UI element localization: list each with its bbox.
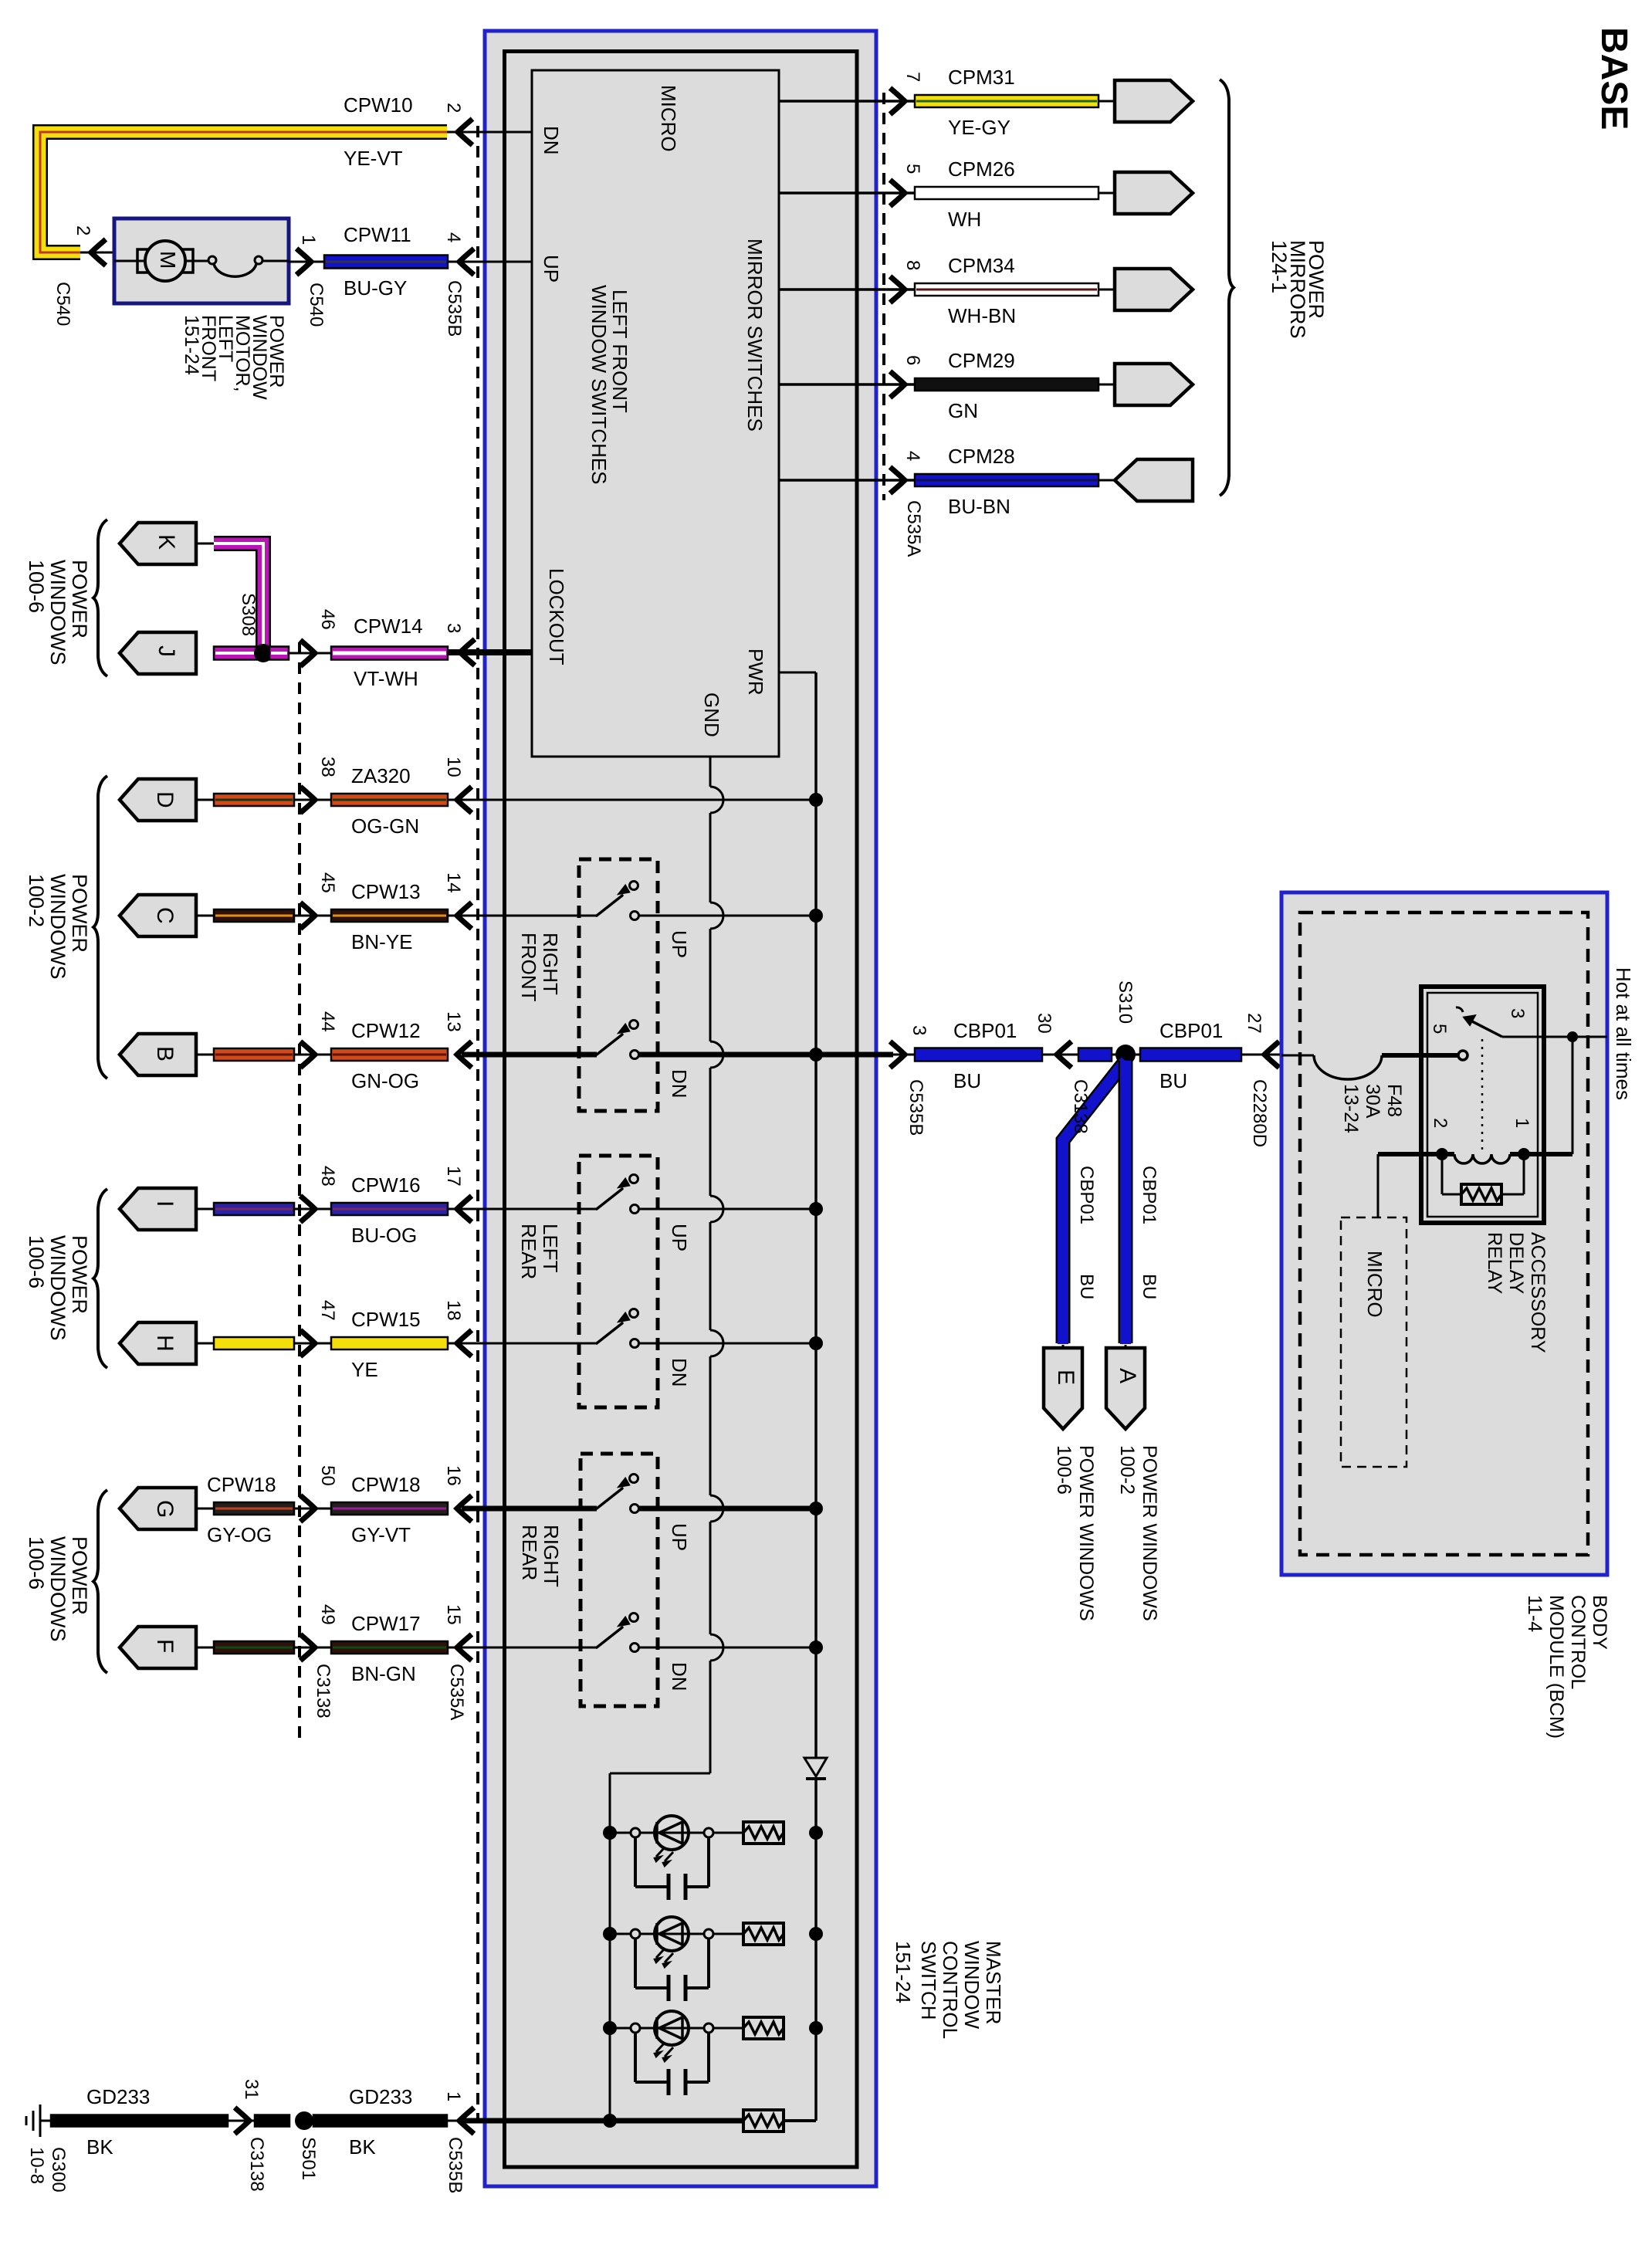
svg-text:BASE: BASE [1593, 27, 1634, 130]
pin 17 of CPW16 [443, 1166, 464, 1187]
svg-text:49: 49 [317, 1604, 338, 1625]
capacitor C3 branch [631, 2023, 713, 2095]
right front switch dashed box [579, 859, 658, 1111]
svg-text:CPW18: CPW18 [351, 1473, 421, 1496]
connector pentagon CPM26 [1115, 172, 1193, 214]
connector boundary C535B dashed line [476, 126, 479, 2123]
svg-text:BK: BK [86, 2135, 113, 2159]
label CPW17 / BN-GN [351, 1612, 421, 1685]
svg-text:DELAY: DELAY [1505, 1232, 1527, 1294]
svg-text:1: 1 [443, 2091, 464, 2101]
wire CPM26 to connector [1099, 192, 1118, 195]
svg-text:38: 38 [317, 757, 338, 777]
svg-text:POWER: POWER [68, 1536, 91, 1615]
connector pentagon CPM28 [1115, 459, 1193, 501]
label POWER WINDOWS 100-6 (I/H) [25, 1235, 91, 1340]
wire left-rear DN switch to PWR bus [639, 1343, 816, 1345]
arrow CPM26 out of C535A [890, 180, 905, 206]
relay contact 5 terminal [1458, 1051, 1468, 1060]
label RIGHT FRONT [517, 933, 562, 1002]
wire C2280D to fuse [1281, 1055, 1314, 1057]
pin 6 of CPM29 [902, 355, 923, 365]
svg-text:4: 4 [902, 451, 923, 461]
label CPW11 / BU-GY [344, 223, 411, 300]
wire right-rear DN switch to PWR bus [639, 1647, 816, 1649]
arrow CPM28 out of C535A [890, 467, 905, 493]
svg-text:CPW13: CPW13 [351, 880, 421, 903]
svg-text:CPW16: CPW16 [351, 1173, 421, 1197]
svg-text:YE: YE [351, 1358, 378, 1381]
svg-text:LEFT FRONT: LEFT FRONT [608, 290, 631, 413]
svg-text:100-6: 100-6 [25, 560, 48, 613]
connector pentagon CPM34 [1115, 269, 1193, 310]
label DN (left rear) [668, 1358, 691, 1387]
svg-text:CBP01: CBP01 [1139, 1166, 1159, 1224]
pin label LOCKOUT [545, 568, 568, 665]
arrow CPM34 out of C535A [890, 276, 905, 303]
arrow CPW18 into C535B [457, 1495, 472, 1522]
motor thermal breaker symbol [185, 256, 289, 276]
svg-text:ZA320: ZA320 [351, 764, 411, 787]
svg-text:CPW14: CPW14 [354, 615, 423, 638]
label CPM26 / WH [948, 157, 1015, 231]
wire LED row 3 [610, 2027, 743, 2030]
pin 1 label (motor) [298, 235, 319, 245]
arrow CPW15 out of C3138 [300, 1330, 331, 1356]
label UP (right rear) [668, 1523, 691, 1551]
label UP (left rear) [668, 1224, 691, 1251]
svg-text:6: 6 [902, 355, 923, 365]
svg-text:WINDOW: WINDOW [960, 1941, 983, 2030]
connector A pentagon [1106, 1348, 1145, 1429]
wire row F to right-rear DN switch [448, 1647, 597, 1649]
svg-text:CONTROL: CONTROL [1567, 1595, 1589, 1689]
svg-text:100-6: 100-6 [25, 1536, 48, 1590]
svg-text:MICRO: MICRO [657, 85, 680, 152]
connector C2280D label [1249, 1079, 1270, 1147]
arrow CPW12 into C535B [457, 1041, 472, 1068]
wire GD233 stub to S501 [255, 2115, 289, 2127]
pin label DN [540, 126, 563, 155]
wire resistor R4 to PWR bus [784, 2119, 816, 2122]
label MIRROR SWITCHES [743, 239, 767, 432]
wire left-rear UP switch to PWR bus [639, 1208, 816, 1211]
svg-text:C535A: C535A [446, 1664, 467, 1720]
label CPW18 / GY-VT [351, 1473, 421, 1546]
svg-text:BN-GN: BN-GN [351, 1662, 416, 1685]
wire CPW11 BU-GY (blue) [324, 256, 448, 269]
svg-text:LEFT: LEFT [539, 1224, 562, 1273]
label LEFT REAR [517, 1224, 562, 1279]
svg-text:10: 10 [443, 757, 464, 777]
svg-text:11-4: 11-4 [1524, 1595, 1545, 1632]
svg-text:100-6: 100-6 [25, 1235, 48, 1288]
wire CPM34 stub from module [779, 288, 915, 291]
svg-text:C535B: C535B [445, 2137, 465, 2193]
label CPW12 / GN-OG [351, 1019, 421, 1092]
wire LOCKOUT pin stub (thick) [449, 649, 532, 655]
connector C535A label (F row) [446, 1664, 467, 1720]
body control module (BCM) box [1281, 892, 1607, 1575]
brace power windows 100-6 (I/H) [93, 1189, 107, 1368]
arrow ZA320 into C535B [457, 787, 472, 813]
wire CPM26 WH band [915, 187, 1099, 199]
arrow CPW13 into C535B [457, 902, 472, 929]
connector C pentagon [120, 895, 196, 936]
svg-text:8: 8 [902, 260, 923, 270]
arrow CPW18 out of C3138 [300, 1495, 331, 1522]
LED 1 [655, 1816, 689, 1866]
wire CPW16 BU-OG [331, 1203, 448, 1215]
svg-text:S501: S501 [298, 2137, 319, 2180]
wire hot feed down to coil [1572, 1037, 1574, 1154]
pin 10 of ZA320 [443, 757, 464, 777]
pin 47 of CPW15 [317, 1300, 338, 1321]
arrow CPW16 out of C3138 [300, 1196, 331, 1222]
label S501 [298, 2137, 319, 2180]
svg-text:100-2: 100-2 [25, 874, 48, 927]
label ZA320 / OG-GN [351, 764, 419, 838]
connector C3138 label (CBP01) [1070, 1079, 1091, 1134]
svg-text:10-8: 10-8 [26, 2147, 47, 2184]
resistor R2 [743, 1923, 784, 1945]
svg-text:BU-GY: BU-GY [344, 276, 407, 300]
splice S310 [1115, 1045, 1136, 1065]
svg-text:13-24: 13-24 [1340, 1084, 1362, 1133]
connector C3138 label (ground) [246, 2137, 267, 2192]
master window control switch assembly box [485, 31, 876, 2186]
pin 44 of CPW12 [317, 1011, 338, 1032]
right rear UP switch [597, 1475, 639, 1513]
label CPW14 / VT-WH [354, 615, 423, 690]
right front DN switch [597, 1021, 639, 1059]
arrow CPW11 into C535B [448, 249, 478, 275]
svg-text:WINDOWS: WINDOWS [46, 874, 69, 979]
wire row D (window lockout feed) inside box [448, 799, 816, 801]
connector J pentagon [120, 632, 196, 674]
svg-text:F: F [152, 1639, 178, 1653]
pin 4 of CPM28 [902, 451, 923, 461]
fuse F48 [1314, 1055, 1382, 1079]
wire GD233 BK (left) [51, 2115, 255, 2127]
brace power mirrors [1220, 80, 1234, 496]
left front window switches sub-module box [532, 70, 779, 757]
brace power windows 100-2 (D/C/B) [93, 776, 107, 1078]
label F48 30A 13-24 [1340, 1084, 1405, 1133]
svg-text:POWER: POWER [68, 874, 91, 953]
arrow CPW17 out of C3138 [300, 1634, 331, 1661]
svg-text:MASTER: MASTER [982, 1941, 1005, 2024]
svg-text:4: 4 [443, 232, 464, 242]
pin label GND [700, 692, 723, 737]
junction dot F row / PWR bus [809, 1641, 823, 1654]
wire row B (CBP01 power feed, thick) [462, 1052, 893, 1058]
relay pin 1 label [1512, 1118, 1532, 1128]
label MICRO (BCM) [1363, 1251, 1386, 1318]
wire fuse to relay contact 5 (thick) [1382, 1053, 1458, 1058]
arrow CBP01 into C3138 [1042, 1041, 1078, 1068]
svg-text:WINDOWS: WINDOWS [46, 1235, 69, 1340]
svg-text:CPM34: CPM34 [948, 254, 1015, 277]
wire row I to left-rear UP switch [448, 1208, 597, 1211]
svg-text:RIGHT: RIGHT [540, 1525, 563, 1587]
junction dot hot feed [1567, 1031, 1578, 1042]
wire CBP01 BU (right) [1112, 1048, 1241, 1062]
resistor R4 [743, 2110, 784, 2132]
svg-text:GN-OG: GN-OG [351, 1069, 419, 1092]
arrow CPW14 into C535B (thick) [448, 639, 475, 665]
svg-text:151-24: 151-24 [892, 1941, 915, 2003]
label GD233 / BK (left) [86, 2085, 150, 2159]
wire CPM28 to connector [1099, 479, 1118, 482]
wire row H to left-rear DN switch [448, 1343, 597, 1345]
label POWER WINDOWS 100-6 (E) [1053, 1445, 1097, 1621]
svg-text:DN: DN [540, 126, 563, 155]
pin 15 of CPW17 [443, 1604, 464, 1625]
label CBP01 / BU (left) [953, 1019, 1017, 1092]
ground symbol G300 [26, 2104, 51, 2137]
wire CPM31 to connector [1099, 100, 1118, 103]
arrow CPW14 out of C3138 [300, 640, 331, 666]
label S308 [238, 593, 259, 636]
svg-text:RELAY: RELAY [1484, 1232, 1505, 1294]
label DN (right rear) [668, 1662, 691, 1691]
label CBP01 BU (E drop) [1076, 1166, 1097, 1299]
svg-text:PWR: PWR [744, 648, 767, 696]
svg-text:DN: DN [668, 1069, 691, 1099]
pin 2 label (motor) [73, 225, 93, 235]
connector C535B label (CPW11) [444, 280, 465, 337]
wire CPM29 GN band [915, 378, 1099, 391]
connector D pentagon [120, 779, 196, 821]
wire CPW18 GY-VT [331, 1502, 448, 1515]
connector C535B label (ground) [445, 2137, 465, 2193]
wire CPW12 GN-OG [331, 1048, 448, 1061]
wire row C to right-front UP switch [448, 915, 597, 917]
junction dot GND rail / left rail [603, 2114, 617, 2128]
BCM inner dashed border [1300, 913, 1588, 1555]
svg-text:CBP01: CBP01 [1076, 1166, 1097, 1224]
svg-text:CPW11: CPW11 [344, 223, 411, 246]
svg-text:H: H [152, 1335, 178, 1352]
svg-text:CPM29: CPM29 [948, 349, 1015, 372]
svg-text:5: 5 [1429, 1024, 1450, 1034]
arrow CPW12 out of C3138 [300, 1041, 331, 1068]
pin 49 of CPW17 [317, 1604, 338, 1625]
arrow out of motor pin 1 [296, 249, 311, 275]
svg-text:POWER WINDOWS: POWER WINDOWS [1139, 1445, 1160, 1621]
wire LED row 2 [610, 1933, 743, 1935]
pin 14 of CPW13 [443, 872, 464, 893]
svg-text:WH: WH [948, 208, 981, 231]
label CPM29 / GN [948, 349, 1015, 422]
svg-text:BU: BU [1139, 1274, 1159, 1299]
svg-text:27: 27 [1244, 1013, 1264, 1034]
svg-text:C540: C540 [306, 283, 327, 327]
label Hot at all times [1612, 967, 1635, 1100]
arrow CBP01 into C2280D [1241, 1041, 1281, 1068]
svg-text:K: K [154, 534, 179, 550]
svg-text:C535A: C535A [903, 500, 924, 557]
wire ZA320 OG-GN [331, 794, 448, 806]
svg-text:2: 2 [1430, 1118, 1451, 1128]
wire row G (thick) to right-rear UP switch [462, 1506, 597, 1512]
svg-text:CPW12: CPW12 [351, 1019, 421, 1042]
wire CPW18 GY-OG outer segment [196, 1502, 300, 1515]
arrow into motor pin 2 [91, 239, 106, 266]
svg-text:MODULE (BCM): MODULE (BCM) [1545, 1595, 1567, 1739]
junction dot relay pin 1 [1518, 1148, 1530, 1160]
svg-text:1: 1 [298, 235, 319, 245]
relay pin 3 label [1507, 1008, 1528, 1018]
pin 3 of CPW14 [443, 623, 464, 633]
svg-text:100-6: 100-6 [1053, 1445, 1075, 1495]
label S310 [1115, 980, 1136, 1024]
svg-text:E: E [1053, 1370, 1078, 1385]
svg-text:2: 2 [443, 103, 464, 113]
connector C535A label (mirror rows) [903, 500, 924, 557]
svg-text:46: 46 [317, 609, 338, 630]
junction dot LED row 3 left rail [603, 2021, 617, 2035]
label CPW10 / YE-VT [344, 93, 413, 170]
arrow CPM31 out of C535A [890, 88, 905, 114]
wire right-front UP switch to PWR bus [639, 915, 816, 917]
svg-text:WINDOW SWITCHES: WINDOW SWITCHES [587, 285, 611, 485]
svg-text:31: 31 [241, 2079, 262, 2100]
pin 13 of CPW12 [443, 1011, 464, 1032]
wire bottom GND rail (thick) [462, 2118, 743, 2124]
svg-text:3: 3 [1507, 1008, 1528, 1018]
label CPW15 / YE [351, 1308, 421, 1381]
pin 2 (C535B) of CPW10 [443, 103, 464, 113]
svg-text:48: 48 [317, 1166, 338, 1187]
LED 3 [655, 2011, 689, 2061]
wire CPM29 to connector [1099, 384, 1118, 386]
pin 45 of CPW13 [317, 872, 338, 893]
svg-text:J: J [154, 645, 179, 657]
arrow CPM29 out of C535A [890, 371, 905, 398]
svg-text:BK: BK [349, 2135, 376, 2159]
brace power windows 100-6 (G/F) [93, 1490, 107, 1673]
svg-text:BU: BU [1159, 1069, 1187, 1092]
power window motor, left front box [114, 218, 289, 303]
svg-text:I: I [152, 1200, 178, 1207]
connector C540 label (motor pin 2) [52, 282, 73, 326]
connector boundary C535A dashed line (mirror rows) [882, 93, 885, 500]
label ACCESSORY DELAY RELAY [1484, 1232, 1549, 1353]
svg-text:CBP01: CBP01 [1159, 1019, 1223, 1042]
svg-text:16: 16 [443, 1465, 464, 1486]
wire CPW13 BN-YE [331, 909, 448, 922]
svg-text:C3138: C3138 [313, 1664, 333, 1718]
left rear UP switch [597, 1175, 639, 1214]
capacitor C2 branch [631, 1929, 713, 2001]
svg-text:44: 44 [317, 1011, 338, 1032]
svg-text:C540: C540 [52, 282, 73, 326]
wire CPM31 stub from module [779, 100, 915, 103]
label POWER WINDOWS 100-2 (A) [1116, 1445, 1160, 1621]
svg-text:BN-YE: BN-YE [351, 930, 412, 953]
arrow CPW15 into C535B [457, 1330, 472, 1356]
pin 30 of CBP01 [1034, 1013, 1055, 1034]
pin 18 of CPW15 [443, 1300, 464, 1321]
svg-text:C535B: C535B [444, 280, 465, 337]
junction dot D row / PWR bus [809, 793, 823, 807]
pin 31 of GD233 [241, 2079, 262, 2100]
wire CPW10 YE-VT (yellow) [40, 132, 447, 252]
svg-text:GD233: GD233 [86, 2085, 150, 2108]
svg-text:WINDOWS: WINDOWS [46, 560, 69, 665]
svg-text:BU: BU [1076, 1274, 1097, 1299]
svg-text:1: 1 [1512, 1118, 1532, 1128]
connector H pentagon [120, 1322, 196, 1364]
svg-text:3: 3 [443, 623, 464, 633]
wire S308 to C3138 (violet) [269, 647, 300, 660]
svg-text:G300: G300 [48, 2147, 69, 2193]
svg-text:18: 18 [443, 1300, 464, 1321]
relay pin 2 label [1430, 1118, 1451, 1128]
wire CPW17 outer segment [196, 1641, 300, 1654]
wire CBP01 stub to S310 [1078, 1048, 1112, 1062]
svg-text:GY-VT: GY-VT [351, 1523, 411, 1546]
svg-text:FRONT: FRONT [517, 933, 540, 1002]
svg-text:30A: 30A [1362, 1084, 1383, 1119]
junction dot I row / PWR bus [809, 1202, 823, 1216]
svg-text:CPM31: CPM31 [948, 66, 1015, 89]
wire GND bus from sub-module [610, 757, 723, 2121]
label UP (right front) [668, 930, 691, 958]
svg-text:DN: DN [668, 1662, 691, 1691]
motor M symbol [114, 241, 193, 281]
svg-text:S308: S308 [238, 593, 259, 636]
arrow CPW16 into C535B [457, 1196, 472, 1222]
svg-text:A: A [1115, 1368, 1140, 1383]
wire CPM34 WH-BN band [915, 283, 1099, 296]
arrow GD233 into C535B [447, 2108, 474, 2134]
svg-text:WINDOWS: WINDOWS [46, 1536, 69, 1641]
right front UP switch [597, 882, 639, 920]
svg-text:C535B: C535B [906, 1079, 926, 1136]
svg-text:BU-OG: BU-OG [351, 1224, 417, 1247]
svg-text:OG-GN: OG-GN [351, 814, 419, 838]
wire LED row 1 [610, 1832, 743, 1834]
wire CBP01 BU drop to A [1119, 1061, 1133, 1348]
svg-text:45: 45 [317, 872, 338, 893]
wire CPW15 outer segment [196, 1337, 300, 1349]
label CBP01 BU (A drop) [1139, 1166, 1159, 1299]
junction dot LED row 2 left rail [603, 1927, 617, 1941]
svg-text:Hot at all times: Hot at all times [1612, 967, 1635, 1100]
svg-text:M: M [156, 251, 180, 269]
svg-text:5: 5 [902, 164, 923, 174]
connector pentagon CPM29 [1115, 364, 1193, 405]
junction dot LED row 1 / PWR bus [809, 1826, 823, 1840]
svg-text:VT-WH: VT-WH [354, 667, 418, 690]
svg-text:BU: BU [953, 1069, 981, 1092]
svg-text:RIGHT: RIGHT [539, 933, 562, 995]
arrow CBP01 out of master switch [890, 1041, 915, 1068]
wire DN pin stub [460, 131, 532, 134]
junction dot LED row 2 / PWR bus [809, 1927, 823, 1941]
wire GD233 BK (right) [313, 2115, 447, 2127]
svg-text:30: 30 [1034, 1013, 1055, 1034]
wire PWR feed from sub-module [779, 672, 816, 1758]
wire CBP01 BU drop to E [1063, 1061, 1126, 1348]
capacitor C1 branch [631, 1828, 713, 1900]
wire relay pin 3 to hot feed [1502, 1036, 1607, 1038]
label G300 10-8 [26, 2147, 69, 2193]
pin label UP [540, 255, 563, 283]
